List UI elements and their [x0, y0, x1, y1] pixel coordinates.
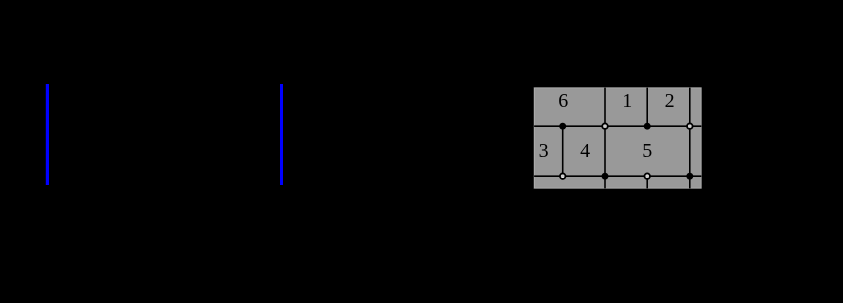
node open (647,176): [644, 173, 650, 179]
blue wall segment left: [46, 84, 49, 185]
svg-text:6: 6: [558, 90, 568, 112]
node filled (647,126): [644, 123, 651, 130]
svg-text:2: 2: [665, 90, 675, 112]
node filled (605,176): [602, 173, 609, 180]
node open (690,126): [687, 123, 693, 129]
gray pattern region: [534, 88, 701, 189]
node open (562,176): [560, 173, 566, 179]
blue wall segment right: [280, 84, 283, 185]
faint light outline of pattern region: [534, 88, 701, 189]
node open (605,126): [602, 123, 608, 129]
vertical wall x=647 lower stub: [646, 176, 648, 188]
vertical wall x=690 (full height): [689, 88, 691, 189]
svg-text:5: 5: [642, 140, 652, 162]
node filled (562,126): [559, 123, 566, 130]
svg-text:3: 3: [539, 140, 549, 162]
vertical wall x=647 upper: [646, 88, 648, 127]
horizontal wall y=176: [534, 175, 701, 177]
svg-text:1: 1: [622, 90, 632, 112]
vertical wall x=605 (full height): [604, 88, 606, 189]
node filled (690,176): [686, 173, 693, 180]
vertical wall x=562 (between nodes): [562, 126, 564, 176]
horizontal wall y=126: [534, 125, 701, 127]
svg-text:4: 4: [580, 140, 590, 162]
